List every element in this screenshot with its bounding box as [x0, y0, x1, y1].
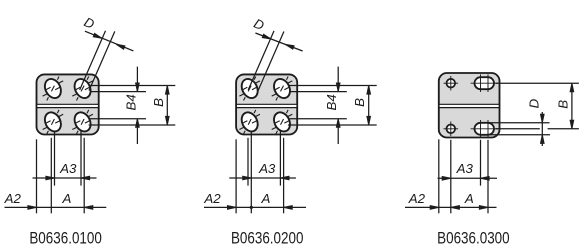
dimension B — [368, 86, 370, 126]
dimension B4 — [337, 67, 339, 92]
slot hole 1 — [42, 76, 64, 101]
dimension A3 — [33, 177, 97, 179]
slot hole 3 — [42, 110, 64, 135]
svg-text:B: B — [556, 100, 571, 109]
dimension A and A2 — [204, 206, 306, 208]
extension lines bottom — [235, 139, 237, 213]
svg-text:B0636.0200: B0636.0200 — [231, 230, 304, 248]
svg-text:B: B — [352, 98, 367, 107]
slot hole 4 — [271, 110, 293, 135]
dimension D (slot width, diagonal) — [80, 31, 106, 90]
svg-text:B: B — [151, 98, 166, 107]
extension lines right — [496, 82, 579, 84]
extension lines right — [288, 85, 377, 87]
dimension A3 — [229, 177, 296, 179]
svg-text:A2: A2 — [203, 191, 221, 206]
svg-text:B0636.0100: B0636.0100 — [29, 230, 102, 248]
dimension B — [166, 86, 168, 126]
slot hole 3 — [239, 110, 261, 135]
dimension A and A2 — [405, 206, 497, 208]
round hole 2 — [447, 125, 456, 134]
svg-text:A3: A3 — [456, 161, 474, 176]
svg-text:D: D — [526, 98, 541, 108]
svg-text:B4: B4 — [324, 94, 339, 110]
slot hole 2 — [271, 76, 293, 101]
round hole 1 — [447, 79, 456, 88]
dimension D — [541, 112, 543, 146]
extension lines right — [89, 85, 176, 87]
parting line — [440, 105, 499, 107]
svg-text:A2: A2 — [408, 191, 426, 206]
slot hole 2 — [71, 76, 93, 101]
dimension B4 — [136, 67, 138, 92]
plate — [236, 74, 297, 134]
dimension D (slot width, diagonal) — [248, 31, 274, 90]
svg-text:B4: B4 — [123, 94, 138, 110]
parting line — [237, 105, 296, 107]
extension lines bottom — [36, 139, 38, 213]
dimension B — [571, 83, 573, 129]
svg-text:A: A — [61, 191, 71, 206]
svg-text:A3: A3 — [258, 161, 276, 176]
plate — [37, 74, 99, 134]
svg-text:A: A — [260, 191, 270, 206]
extension lines bottom — [438, 139, 440, 213]
svg-text:A3: A3 — [59, 161, 77, 176]
svg-text:A: A — [464, 191, 474, 206]
slot hole 1 — [475, 77, 495, 89]
dimension A3 — [438, 177, 498, 179]
svg-text:A2: A2 — [4, 191, 22, 206]
dimension A and A2 — [5, 206, 107, 208]
plate — [439, 73, 500, 138]
svg-text:B0636.0300: B0636.0300 — [437, 230, 510, 248]
parting line — [37, 105, 97, 107]
slot hole 4 — [71, 110, 93, 135]
slot hole 1 — [239, 76, 261, 101]
slot hole 2 — [475, 123, 495, 135]
